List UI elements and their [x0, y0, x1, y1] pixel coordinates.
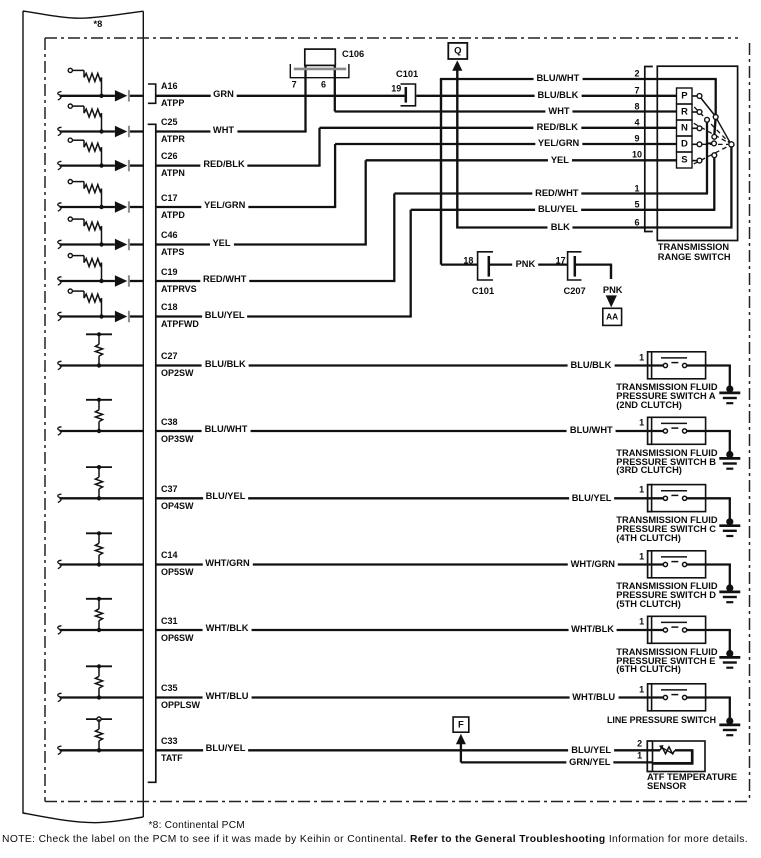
internal supply bar row C33: [86, 718, 112, 720]
wire PNK C101 to C207: [490, 263, 568, 265]
switch box (transmission fluid pressure switch C): [652, 485, 706, 512]
blade line (transmission fluid pressure switch C): [661, 490, 687, 492]
range switch pin number 10: [632, 151, 642, 160]
pin number 1 (transmission fluid pressure switch E): [639, 618, 644, 627]
wire resistor to node row C37: [98, 489, 100, 498]
wire internal row C38: [60, 430, 144, 432]
wire drop to ground (transmission fluid pressure switch D): [729, 565, 731, 589]
pin number C25: [161, 118, 178, 127]
wire-break squiggle row C35: [58, 693, 62, 701]
wire out of switch (transmission fluid pressure switch D): [687, 563, 731, 565]
pin name TATF: [161, 754, 183, 763]
ground bar 1 (transmission fluid pressure switch B): [719, 457, 740, 460]
note line: [2, 834, 748, 845]
wire out of switch (transmission fluid pressure switch A): [687, 364, 731, 366]
wire color label WHT/BLU (at line pressure switch): [569, 692, 618, 702]
pin number 1 (transmission fluid pressure switch A): [639, 353, 644, 362]
junction node row C27: [97, 363, 101, 367]
pin number C31: [161, 617, 178, 626]
label line pressure switch: [607, 716, 716, 725]
wire drop to resistor row C25: [83, 106, 85, 113]
wire internal row C26: [60, 164, 115, 166]
C207 pin 17 bracket: [568, 252, 582, 280]
junction node row C38: [97, 429, 101, 433]
connector label C207: [564, 287, 586, 296]
pin number C35: [161, 684, 178, 693]
blade line (transmission fluid pressure switch E): [661, 621, 687, 623]
transmission range switch box: [657, 66, 737, 240]
left contact circle (transmission fluid pressure switch A): [663, 363, 667, 367]
wire from supply circle row C25: [72, 105, 84, 107]
stub cell N to contact: [692, 127, 697, 129]
wire diode to PCM edge row C46: [130, 243, 143, 245]
junction node row C17: [99, 205, 103, 209]
connector bracket (transmission fluid pressure switch C): [648, 485, 653, 512]
node circle on D line: [712, 141, 717, 146]
dashed blade position D: [694, 143, 728, 145]
wire resistor to node row C31: [98, 621, 100, 630]
supply terminal circle row C33: [97, 717, 101, 721]
wire BLK rise to Q arrow: [456, 70, 458, 227]
junction on supply bar row C31: [97, 597, 101, 601]
blade line (transmission fluid pressure switch A): [661, 357, 687, 359]
arrowhead into AA: [606, 295, 617, 307]
pin name ATPD: [161, 211, 185, 220]
wire internal row C46: [60, 243, 115, 245]
wire color label YEL/GRN (left, C17): [201, 200, 248, 210]
wire BLU/BLK C101 to range switch pin 7: [416, 95, 676, 97]
C106 jumper bar: [305, 49, 336, 65]
pin name OP4SW: [161, 502, 194, 511]
internal supply bar row C35: [86, 665, 112, 667]
switch box (line pressure switch): [652, 684, 706, 711]
switch box (transmission fluid pressure switch B): [652, 417, 706, 444]
wire RED/BLK C26: [156, 164, 321, 166]
contact dash (transmission fluid pressure switch C): [671, 494, 678, 496]
resistor (pull-up) row C27: [95, 344, 102, 356]
wire bar to resistor row C31: [98, 599, 100, 609]
pin name ATPP: [161, 99, 184, 108]
note *8 Continental PCM: [149, 821, 245, 831]
resistor (pull-up) row C37: [95, 477, 102, 489]
label ATF temperature sensor: [647, 773, 737, 791]
pin number C27: [161, 352, 178, 361]
wire color label GRN (left, A16): [210, 89, 237, 99]
pin name OPPLSW: [161, 701, 200, 710]
wire color label WHT/BLU (left, C35): [203, 691, 252, 701]
blade line (line pressure switch): [661, 689, 687, 691]
range switch pin number 1: [634, 184, 639, 193]
wire internal row C37: [60, 497, 144, 499]
ground bar 1 (transmission fluid pressure switch E): [719, 656, 740, 659]
wire BLU/WHT to range switch pin 2: [440, 78, 717, 80]
connector bracket (transmission fluid pressure switch E): [648, 616, 653, 643]
blade line (transmission fluid pressure switch D): [661, 556, 687, 558]
wire color label BLU/YEL (at transmission fluid pressure switch C): [569, 493, 615, 503]
label transmission fluid pressure switch A: [616, 383, 717, 410]
wire-break squiggle row C33: [58, 746, 62, 754]
letters AA: [606, 313, 618, 322]
wire internal row C35: [60, 696, 144, 698]
wire WHT rise to C106 pin 7: [304, 65, 306, 131]
wire color label YEL/GRN (range switch side): [535, 138, 582, 148]
dashed blade position N: [694, 123, 729, 143]
wire resistor to node row C17: [101, 189, 103, 207]
junction on supply bar row C37: [97, 465, 101, 469]
switch box (transmission fluid pressure switch A): [652, 352, 706, 379]
pin number C19: [161, 268, 178, 277]
wire RED/WHT to range switch pin 1: [394, 192, 708, 194]
wire drop to ground (transmission fluid pressure switch E): [729, 630, 731, 654]
junction node row C35: [97, 695, 101, 699]
junction node row C19: [99, 279, 103, 283]
wire bar to resistor row C14: [98, 533, 100, 543]
dash-dot boundary bottom edge: [45, 801, 750, 803]
arrowhead into Q: [452, 60, 462, 70]
pin number C17: [161, 194, 178, 203]
wire diode to PCM edge row C19: [130, 280, 143, 282]
internal supply terminal circle row C19: [68, 254, 72, 258]
wire WHT C25: [156, 130, 307, 132]
right contact circle (transmission fluid pressure switch A): [683, 363, 687, 367]
internal supply terminal circle row C46: [68, 217, 72, 221]
ground junction dot (transmission fluid pressure switch D): [726, 584, 733, 591]
ground bar 1 (transmission fluid pressure switch C): [719, 524, 740, 527]
junction node row C25: [99, 129, 103, 133]
pin name OP5SW: [161, 568, 194, 577]
diode row C19: [115, 275, 127, 286]
contact dash (transmission fluid pressure switch E): [671, 626, 678, 628]
ground bar 3 (transmission fluid pressure switch E): [726, 667, 733, 669]
wire BLU/YEL rise: [410, 210, 412, 317]
wire out of switch (transmission fluid pressure switch E): [687, 629, 731, 631]
range switch pin number 4: [634, 118, 639, 127]
wire pin6 rise to common: [730, 147, 732, 227]
wire resistor to node row C38: [98, 422, 100, 431]
C101 pin 19 bracket: [401, 84, 416, 106]
wire color label RED/WHT (left, C19): [200, 274, 249, 284]
ground bar 3 (transmission fluid pressure switch A): [726, 402, 733, 404]
wire-break squiggle row C38: [58, 427, 62, 435]
wire PNK drop toward AA: [610, 265, 612, 279]
junction node row C14: [97, 562, 101, 566]
wire-break squiggle row C25: [58, 127, 62, 135]
note *8 marker: [94, 20, 103, 29]
wire-break squiggle row C26: [58, 161, 62, 169]
resistor (pull-up) row C17: [84, 185, 102, 193]
wire color label WHT/BLK (at transmission fluid pressure switch E): [568, 624, 617, 634]
wire-break squiggle row C17: [58, 203, 62, 211]
ATF sensor connector bracket: [647, 741, 652, 772]
C106 pin number 7: [292, 80, 297, 89]
wire GRN/YEL to sensor pin 1: [461, 761, 653, 763]
wire RED/BLK rise: [318, 128, 320, 166]
wire out of switch (line pressure switch): [687, 696, 731, 698]
ground junction dot (transmission fluid pressure switch A): [726, 385, 733, 392]
wire resistor to node row C33: [98, 741, 100, 750]
wire out of switch (transmission fluid pressure switch C): [687, 497, 731, 499]
wire from supply circle row C18: [72, 290, 84, 292]
wire drop to ground (line pressure switch): [729, 698, 731, 722]
resistor (pull-up) row C26: [84, 143, 102, 151]
left contact circle (transmission fluid pressure switch E): [663, 628, 667, 632]
wire from supply circle row C46: [72, 218, 84, 220]
wire BLU/WHT drop to C101 pin 18: [440, 79, 442, 265]
pin number 19: [391, 85, 401, 94]
wire color label BLU/WHT (range switch side): [533, 73, 582, 83]
wire drop to ground (transmission fluid pressure switch B): [729, 431, 731, 455]
blade line (transmission fluid pressure switch B): [661, 422, 687, 424]
wire YEL rise: [365, 160, 367, 244]
wire color label RED/BLK (range switch side): [534, 122, 581, 132]
wire from supply circle row C17: [72, 181, 84, 183]
diode cathode bar row C18: [128, 311, 130, 322]
wire YEL/GRN to range switch pin 9: [335, 143, 676, 145]
left contact circle (transmission fluid pressure switch D): [663, 562, 667, 566]
junction node row C31: [97, 628, 101, 632]
pin number C37: [161, 485, 178, 494]
junction on supply bar row C27: [97, 332, 101, 336]
contact dash (transmission fluid pressure switch B): [671, 427, 678, 429]
wire internal row C31: [60, 629, 144, 631]
C101 pin 19 terminal bar: [405, 87, 408, 103]
wire diode to PCM edge row C25: [130, 130, 143, 132]
wire color label BLK (range switch side): [548, 222, 573, 232]
wire resistor to node row C26: [101, 147, 103, 165]
pin number 1 (line pressure switch): [639, 685, 644, 694]
hinge circle (pin 2): [713, 115, 718, 120]
wire WHT drop from C106 pin 6: [334, 65, 336, 111]
wire out of switch (transmission fluid pressure switch B): [687, 430, 731, 432]
wire color label RED/BLK (left, C26): [200, 159, 247, 169]
PCM connector body outline (wavy box): [23, 11, 143, 823]
pin number 1 (transmission fluid pressure switch B): [639, 419, 644, 428]
C106 receptacle bracket: [290, 64, 349, 78]
wire resistor to node row C27: [98, 356, 100, 365]
switch box (transmission fluid pressure switch E): [652, 616, 706, 643]
dashed blade position S: [694, 146, 729, 164]
dashed blade position R: [694, 107, 729, 143]
pin number 1 (transmission fluid pressure switch D): [639, 552, 644, 561]
node circle on S line (pin 5): [712, 153, 717, 158]
connector bracket (transmission fluid pressure switch B): [648, 417, 653, 444]
wire diode to PCM edge row C18: [130, 315, 143, 317]
wire BLU/YEL C18: [156, 315, 412, 317]
PCM pin bracket A16: [148, 84, 156, 103]
range switch pin number 6: [634, 218, 639, 227]
right contact circle (transmission fluid pressure switch C): [683, 496, 687, 500]
connector label C101 (pin 19): [396, 70, 418, 79]
C106 mating seam: [294, 68, 346, 71]
pin number C18: [161, 303, 178, 312]
wire RED/WHT rise: [393, 194, 395, 282]
range switch pin number 5: [634, 200, 639, 209]
arrowhead into F: [456, 734, 466, 744]
ground junction dot (transmission fluid pressure switch B): [726, 451, 733, 458]
wire color label BLU/BLK (left, C27): [202, 359, 249, 369]
stub cell D to contact: [692, 143, 697, 145]
junction node row A16: [99, 94, 103, 98]
wire-break squiggle row C18: [58, 312, 62, 320]
internal supply bar row C27: [86, 333, 112, 335]
internal supply terminal circle row C17: [68, 180, 72, 184]
wire pin5 rise to S node: [713, 158, 715, 210]
wire WHT to range switch pin 8: [335, 110, 677, 112]
cell letter N: [681, 124, 688, 133]
wire into switch (transmission fluid pressure switch E): [156, 629, 664, 631]
wire bar to resistor row C27: [98, 334, 100, 344]
connector box AA: [603, 308, 622, 325]
junction node row C18: [99, 314, 103, 318]
diode row C17: [115, 201, 127, 212]
range switch connector bracket: [645, 67, 653, 232]
wire into switch (transmission fluid pressure switch A): [156, 364, 664, 366]
wire color label WHT (left, C25): [210, 125, 237, 135]
wire BLK range switch pin 6 to Q: [456, 226, 732, 228]
label transmission fluid pressure switch E: [616, 648, 717, 675]
ground junction dot (transmission fluid pressure switch E): [726, 650, 733, 657]
sensor loop bottom: [653, 762, 694, 765]
pin name OP2SW: [161, 369, 194, 378]
wire color label YEL (left, C46): [209, 238, 233, 248]
wire drop to resistor row C46: [83, 219, 85, 226]
dash-dot boundary right edge: [749, 43, 751, 802]
junction on supply bar row C14: [97, 531, 101, 535]
pin name ATPS: [161, 248, 184, 257]
resistor (pull-up) row C38: [95, 410, 102, 422]
connector bracket (transmission fluid pressure switch A): [648, 352, 653, 379]
resistor (pull-up) row C46: [84, 222, 102, 230]
wire drop to resistor row C26: [83, 140, 85, 147]
left contact circle (transmission fluid pressure switch B): [663, 429, 667, 433]
C106 pin number 6: [321, 80, 326, 89]
range switch position cell P: [677, 88, 693, 104]
wire drop to ground (transmission fluid pressure switch A): [729, 366, 731, 390]
ground bar 2 (transmission fluid pressure switch B): [723, 462, 737, 464]
internal supply terminal circle row C18: [68, 289, 72, 293]
diode cathode bar row C25: [128, 126, 130, 137]
ground bar 2 (transmission fluid pressure switch C): [723, 530, 737, 532]
wire YEL C46: [156, 243, 367, 245]
range switch pin number 8: [634, 102, 639, 111]
wire color label BLU/WHT (at transmission fluid pressure switch B): [567, 425, 616, 435]
resistor (pull-up) row C19: [84, 259, 102, 267]
pin number 1 (transmission fluid pressure switch C): [639, 486, 644, 495]
wire color label GRN/YEL: [566, 757, 613, 767]
wire color label WHT (range switch side): [545, 106, 572, 116]
resistor (pull-up) row C14: [95, 543, 102, 555]
range switch position cell R: [677, 104, 693, 120]
resistor (pull-up) row C31: [95, 609, 102, 621]
cell letter R: [681, 108, 688, 117]
switch box (transmission fluid pressure switch D): [652, 551, 706, 578]
connector label C101 (pin 18): [472, 287, 494, 296]
contact circle D: [697, 142, 702, 147]
diode row C46: [115, 239, 127, 250]
wire from supply circle row C19: [72, 255, 84, 257]
wire resistor to node row C35: [98, 688, 100, 697]
wire diode to PCM edge row C17: [130, 206, 143, 208]
PCM pin bracket C25-C33 (tall): [148, 124, 156, 782]
thermistor arrowhead: [659, 745, 664, 749]
range switch pin number 7: [634, 86, 639, 95]
wire-break squiggle row C14: [58, 560, 62, 568]
wire drop to resistor row A16: [83, 70, 85, 77]
ground bar 3 (transmission fluid pressure switch B): [726, 468, 733, 470]
wire bar to resistor row C38: [98, 400, 100, 410]
pin name ATPR: [161, 135, 185, 144]
wire pin1 rise to R node: [706, 122, 708, 193]
letter Q: [454, 47, 461, 56]
wire into switch (transmission fluid pressure switch B): [156, 430, 664, 432]
range switch pin number 2: [634, 70, 639, 79]
ground bar 2 (line pressure switch): [723, 729, 737, 731]
contact dash (transmission fluid pressure switch D): [671, 561, 678, 563]
wire internal row C27: [60, 364, 144, 366]
wire resistor to node row C14: [98, 555, 100, 564]
resistor (pull-up) row C25: [84, 109, 102, 117]
C101 pin 18 bracket: [478, 252, 493, 280]
right contact circle (transmission fluid pressure switch D): [683, 562, 687, 566]
pin number C38: [161, 418, 178, 427]
resistor (pull-up) row A16: [84, 73, 102, 81]
pin name ATPN: [161, 169, 185, 178]
stub cell S to contact: [692, 160, 697, 162]
connector bracket (transmission fluid pressure switch D): [648, 551, 653, 578]
switch blade hinge to common: [717, 119, 731, 143]
junction node row C46: [99, 242, 103, 246]
wire YEL to range switch pin 10: [366, 159, 677, 161]
ground bar 1 (line pressure switch): [719, 724, 740, 727]
right contact circle (transmission fluid pressure switch B): [683, 429, 687, 433]
connector box Q: [448, 43, 467, 59]
wire internal row C19: [60, 280, 115, 282]
diode row C18: [115, 311, 127, 322]
wire into switch (transmission fluid pressure switch C): [156, 497, 664, 499]
pin number 1 (ATF sensor): [637, 752, 642, 761]
diode cathode bar row C46: [128, 239, 130, 250]
contact circle R: [697, 110, 702, 115]
pin number 2 (ATF sensor): [637, 739, 642, 748]
wire color label BLU/YEL (left, C33): [203, 743, 249, 753]
connector bracket (line pressure switch): [648, 684, 653, 711]
wire color label BLU/WHT (left, C38): [202, 424, 251, 434]
wire resistor to node row C18: [101, 298, 103, 316]
pin name ATPFWD: [161, 320, 199, 329]
wire color label RED/WHT (range switch side): [532, 188, 581, 198]
pin name OP3SW: [161, 435, 194, 444]
label transmission fluid pressure switch B: [616, 449, 717, 476]
wire GRN/YEL rise to F: [460, 744, 462, 762]
wire drop to ground (transmission fluid pressure switch C): [729, 498, 731, 522]
stub cell P to contact: [692, 95, 697, 97]
thermistor element: [660, 747, 675, 754]
junction node row C33: [97, 748, 101, 752]
wire BLU/YEL to range switch pin 5: [411, 209, 716, 211]
wire bar to resistor row C37: [98, 467, 100, 477]
wire YEL/GRN C17: [156, 206, 337, 208]
wire GRN A16 to C101: [156, 95, 405, 97]
wire color label BLU/BLK (at transmission fluid pressure switch A): [567, 360, 614, 370]
wire diode to PCM edge row A16: [130, 95, 143, 97]
cell letter S: [681, 156, 687, 165]
wire-break squiggle row A16: [58, 92, 62, 100]
wire-break squiggle row C31: [58, 626, 62, 634]
internal supply terminal circle row A16: [68, 68, 72, 72]
wire resistor to node row C19: [101, 263, 103, 281]
ground bar 3 (line pressure switch): [726, 734, 733, 736]
wire drop to resistor row C18: [83, 291, 85, 298]
